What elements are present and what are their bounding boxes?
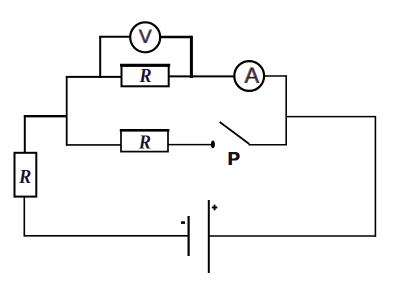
wire: vertical from node down to R3 (24, 116, 26, 153)
switch label P (227, 148, 240, 169)
ammeter circle (234, 61, 264, 91)
wire: bottom horizontal, battery + to outer right (209, 235, 376, 237)
switch blade (open) (220, 122, 250, 144)
wire: middle branch horizontal to resistor R2 (66, 144, 122, 146)
svg-text:A: A (245, 63, 260, 88)
resistor R3 box (left, vertical) (15, 153, 37, 197)
switch pivot dot (211, 141, 215, 149)
wire: ammeter to right corner (264, 75, 287, 77)
svg-text:R: R (138, 132, 150, 154)
resistor R1 value label R (138, 65, 151, 87)
resistor R3 value label R (18, 166, 31, 188)
voltmeter circle (130, 22, 160, 52)
resistor R2 value label R (138, 132, 151, 154)
wire: branch horizontal to outer right (286, 116, 376, 118)
resistor R2 box (middle) (120, 130, 170, 153)
wire: switch to right vertical (249, 144, 287, 146)
wire: R2 to switch pivot (168, 144, 211, 146)
wire: outer right vertical (374, 116, 376, 237)
wire: left vertical x=67 from top branch to middle branch (66, 76, 68, 146)
battery positive plate (long) (208, 200, 210, 273)
wire: bottom horizontal, left to battery - (24, 235, 188, 237)
wire: top branch horizontal, R1 to ammeter (169, 75, 235, 77)
resistor R1 box (top) (120, 65, 170, 88)
wire: right vertical x=286 (285, 75, 287, 145)
wire: thick right vertical of voltmeter loop (190, 36, 193, 78)
battery plus label (212, 205, 218, 211)
wire: thick horizontal at node y=116 (24, 115, 68, 117)
battery negative plate (short) (188, 216, 190, 256)
svg-text:P: P (228, 148, 240, 169)
wire: voltmeter branch top-left horizontal (99, 36, 130, 38)
svg-text:R: R (19, 166, 31, 188)
wire: voltmeter branch top-right horizontal (161, 36, 193, 38)
svg-text:R: R (139, 65, 151, 87)
wire: bottom left vertical under R3 (23, 197, 25, 237)
battery minus label (181, 221, 185, 224)
voltmeter label V (138, 26, 152, 48)
wire: voltmeter branch left vertical (99, 36, 101, 78)
svg-text:V: V (139, 26, 152, 48)
ammeter label A (244, 63, 260, 88)
wire: top branch horizontal, node to resistor R1 (66, 76, 122, 78)
